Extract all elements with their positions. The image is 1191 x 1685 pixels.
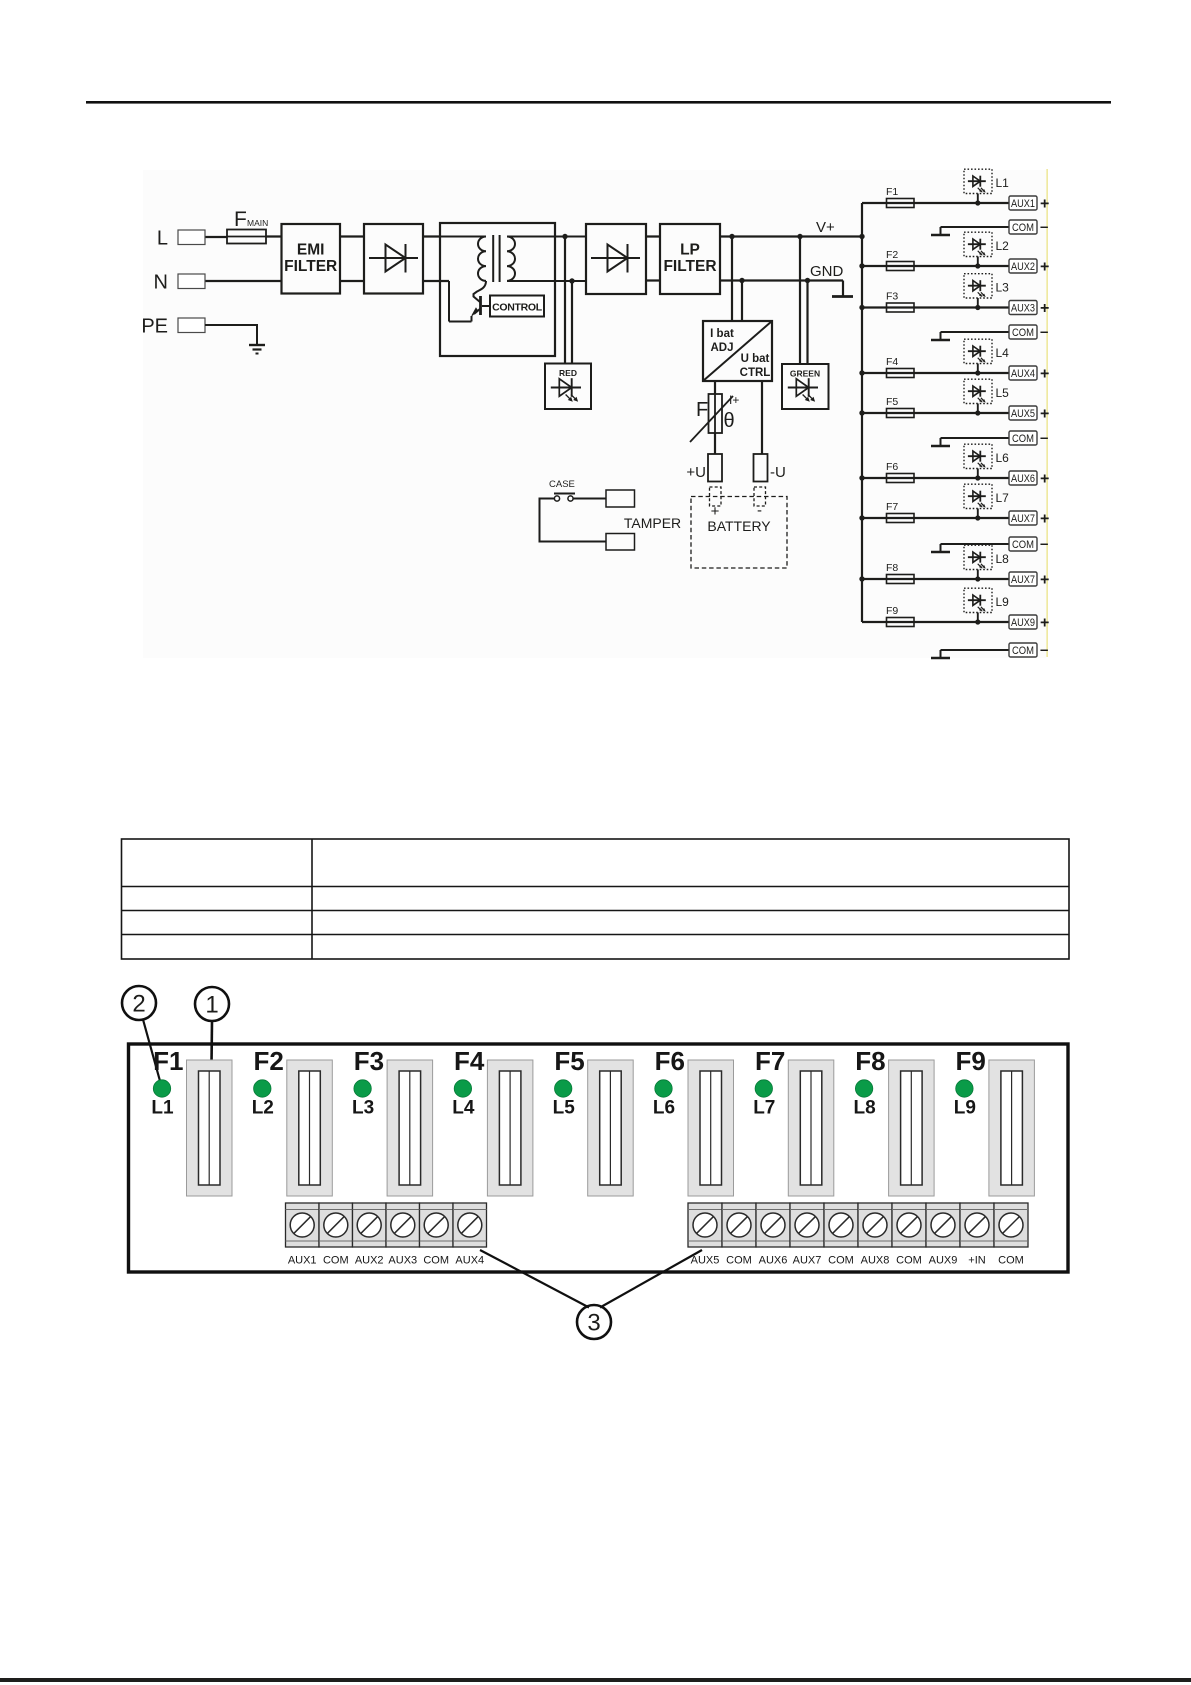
svg-text:GREEN: GREEN [790,369,820,379]
svg-text:PE: PE [141,316,168,338]
svg-text:F6: F6 [886,461,898,473]
svg-text:L7: L7 [996,491,1010,505]
svg-text:L3: L3 [352,1098,374,1119]
svg-text:F7: F7 [886,501,898,513]
svg-text:F1: F1 [153,1046,183,1076]
svg-text:LP: LP [680,242,700,259]
svg-text:F2: F2 [253,1046,283,1076]
svg-text:+U: +U [686,464,706,481]
svg-text:F6: F6 [655,1046,685,1076]
svg-text:+IN: +IN [968,1255,985,1267]
svg-text:F9: F9 [886,605,898,617]
svg-text:AUX7: AUX7 [1011,574,1035,586]
svg-text:TAMPER: TAMPER [624,515,681,531]
svg-text:L7: L7 [753,1098,775,1119]
svg-text:COM: COM [998,1255,1024,1267]
svg-text:F7: F7 [755,1046,785,1076]
svg-text:F4: F4 [886,356,898,368]
svg-text:COM: COM [323,1255,349,1267]
svg-text:COM: COM [1012,327,1034,339]
svg-text:COM: COM [726,1255,752,1267]
svg-text:F9: F9 [956,1046,986,1076]
svg-text:-U: -U [770,464,786,481]
svg-text:AUX6: AUX6 [1011,473,1035,485]
svg-text:COM: COM [896,1255,922,1267]
svg-text:L6: L6 [996,451,1010,465]
svg-text:ADJ: ADJ [710,342,733,354]
svg-text:2: 2 [132,991,145,1018]
svg-text:AUX1: AUX1 [1011,198,1035,210]
svg-text:AUX4: AUX4 [455,1255,484,1267]
svg-text:COM: COM [828,1255,854,1267]
svg-text:AUX2: AUX2 [355,1255,384,1267]
svg-text:L9: L9 [996,595,1010,609]
svg-text:L5: L5 [996,386,1010,400]
svg-text:–: – [1040,430,1048,447]
svg-text:F2: F2 [886,249,898,261]
svg-text:+: + [1040,259,1049,276]
svg-text:F5: F5 [554,1046,584,1076]
svg-text:AUX6: AUX6 [759,1255,788,1267]
svg-text:AUX9: AUX9 [1011,617,1035,629]
svg-text:F8: F8 [855,1046,885,1076]
svg-text:L1: L1 [996,176,1010,190]
svg-text:CTRL: CTRL [740,367,771,379]
svg-text:COM: COM [1012,433,1034,445]
svg-text:F4: F4 [454,1046,485,1076]
svg-text:COM: COM [1012,222,1034,234]
svg-text:BATTERY: BATTERY [707,518,771,534]
svg-text:F8: F8 [886,562,898,574]
svg-text:L5: L5 [553,1098,576,1119]
svg-text:+: + [1040,615,1049,632]
svg-text:L9: L9 [954,1098,976,1119]
svg-text:F3: F3 [354,1046,384,1076]
svg-text:L6: L6 [653,1098,675,1119]
svg-text:AUX7: AUX7 [793,1255,822,1267]
svg-text:AUX5: AUX5 [691,1255,720,1267]
svg-text:F3: F3 [886,291,898,303]
svg-text:L3: L3 [996,281,1010,295]
svg-text:CASE: CASE [549,479,575,490]
svg-text:AUX2: AUX2 [1011,261,1035,273]
svg-text:AUX9: AUX9 [929,1255,958,1267]
svg-text:CONTROL: CONTROL [492,302,543,314]
svg-text:MAIN: MAIN [247,218,268,228]
svg-text:COM: COM [423,1255,449,1267]
svg-text:–: – [1040,642,1048,659]
svg-text:+: + [1040,471,1049,488]
svg-text:F: F [234,208,247,231]
svg-text:-: - [757,502,762,519]
svg-text:I bat: I bat [710,328,734,340]
svg-text:F: F [696,399,708,421]
svg-text:F5: F5 [886,396,898,408]
svg-text:AUX4: AUX4 [1011,368,1035,380]
svg-text:U bat: U bat [741,353,770,365]
svg-text:AUX7: AUX7 [1011,513,1035,525]
svg-text:3: 3 [587,1310,600,1337]
svg-text:+: + [1040,366,1049,383]
svg-text:COM: COM [1012,645,1034,657]
svg-text:–: – [1040,219,1048,236]
svg-text:L4: L4 [996,346,1010,360]
svg-text:+: + [1040,196,1049,213]
svg-text:+: + [1040,572,1049,589]
svg-text:AUX8: AUX8 [861,1255,890,1267]
svg-text:AUX5: AUX5 [1011,408,1035,420]
svg-text:N: N [154,272,168,294]
svg-text:+: + [1040,511,1049,528]
svg-text:–: – [1040,324,1048,341]
svg-text:L8: L8 [996,552,1010,566]
svg-text:EMI: EMI [297,242,325,259]
svg-text:L2: L2 [996,239,1010,253]
svg-text:L1: L1 [151,1098,174,1119]
svg-text:L8: L8 [854,1098,876,1119]
svg-text:FILTER: FILTER [284,258,337,275]
svg-text:+: + [1040,300,1049,317]
svg-text:1: 1 [205,992,218,1019]
svg-text:FILTER: FILTER [663,258,716,275]
svg-text:AUX3: AUX3 [1011,303,1035,315]
svg-text:AUX1: AUX1 [288,1255,317,1267]
svg-text:I+: I+ [729,393,739,407]
svg-text:F1: F1 [886,186,898,198]
svg-text:θ: θ [724,410,735,432]
svg-text:–: – [1040,536,1048,553]
svg-text:GND: GND [810,263,844,280]
svg-text:L4: L4 [452,1098,475,1119]
svg-text:RED: RED [559,368,577,378]
svg-text:COM: COM [1012,539,1034,551]
svg-text:L2: L2 [252,1098,274,1119]
svg-text:+: + [1040,406,1049,423]
svg-text:AUX3: AUX3 [388,1255,417,1267]
svg-text:V+: V+ [816,219,835,236]
svg-text:L: L [157,228,168,250]
